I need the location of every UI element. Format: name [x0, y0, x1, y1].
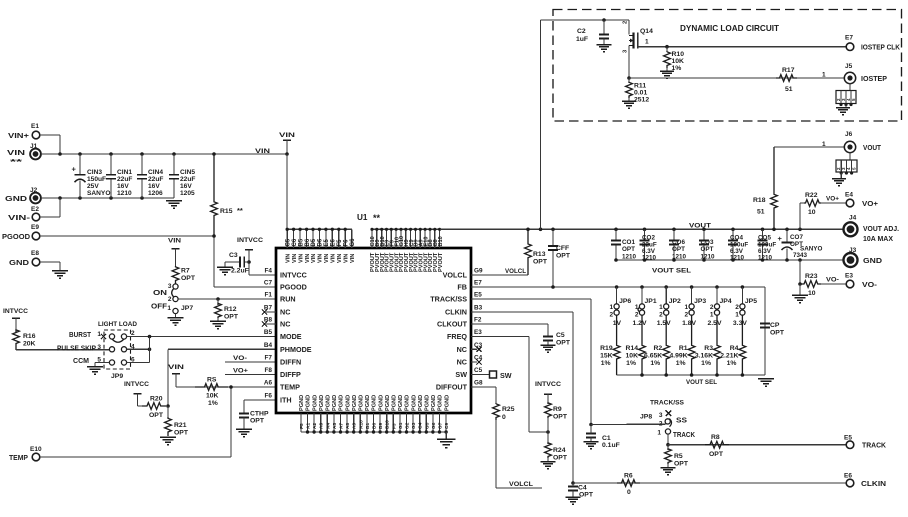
svg-text:JP9: JP9	[111, 373, 123, 380]
svg-text:PVOUT: PVOUT	[438, 252, 444, 272]
U1 right pin names	[430, 268, 483, 392]
jumper JP6	[609, 287, 631, 327]
svg-text:VOUT ADJ.: VOUT ADJ.	[863, 226, 899, 233]
wire to J6	[774, 141, 845, 148]
svg-text:VIN: VIN	[311, 254, 317, 263]
svg-text:A7: A7	[339, 423, 345, 429]
capacitor CO5	[757, 229, 776, 261]
svg-text:A2: A2	[312, 423, 318, 429]
svg-text:1: 1	[822, 141, 826, 148]
svg-text:TEMP: TEMP	[9, 455, 28, 462]
ground C5	[540, 341, 555, 353]
svg-text:R21: R21	[174, 422, 187, 429]
svg-text:E8: E8	[31, 250, 39, 257]
svg-text:B3: B3	[474, 305, 483, 312]
label VO- wire	[821, 277, 846, 285]
svg-text:VIN: VIN	[318, 254, 324, 263]
terminal E1 VIN+	[8, 123, 40, 140]
svg-text:NC: NC	[280, 308, 290, 317]
svg-text:MODE: MODE	[280, 332, 302, 341]
svg-text:R25: R25	[502, 406, 515, 413]
svg-text:B5: B5	[298, 238, 304, 246]
wire GND rail (output)	[614, 258, 844, 262]
svg-text:VIN: VIN	[298, 254, 304, 263]
svg-text:E9: E9	[31, 224, 39, 231]
resistor R9	[545, 403, 568, 421]
svg-text:4.99K: 4.99K	[669, 353, 687, 360]
svg-text:10K: 10K	[672, 58, 685, 65]
svg-text:LIGHT LOAD: LIGHT LOAD	[98, 321, 137, 328]
svg-text:E3: E3	[474, 329, 482, 336]
svg-text:INTVCC: INTVCC	[3, 308, 28, 315]
wire VOUT to dynamic load	[540, 20, 542, 229]
wire VOUT rail	[440, 228, 844, 232]
svg-text:TEMP: TEMP	[280, 383, 300, 392]
svg-text:2512: 2512	[634, 97, 649, 104]
svg-text:CIN3: CIN3	[87, 169, 102, 176]
ground R5	[660, 464, 675, 475]
svg-text:2: 2	[168, 296, 172, 303]
transistor Q14	[623, 20, 654, 78]
label VO+ DIFFP	[225, 368, 276, 375]
label VOUT net	[689, 223, 712, 230]
svg-text:CLKIN: CLKIN	[861, 481, 886, 488]
capacitor CFF	[548, 229, 571, 287]
svg-text:OPT: OPT	[553, 414, 568, 421]
svg-text:R6: R6	[624, 473, 633, 480]
resistor R17	[776, 67, 797, 93]
svg-text:10A MAX: 10A MAX	[863, 236, 893, 243]
wire TRACK net	[668, 444, 846, 446]
svg-text:R10: R10	[672, 51, 685, 58]
svg-text:C1: C1	[602, 435, 611, 442]
svg-text:0: 0	[502, 414, 506, 421]
svg-text:1%: 1%	[701, 360, 711, 367]
capacitor CO2	[639, 229, 657, 261]
connector shield J6	[836, 153, 857, 178]
svg-text:VOLCL: VOLCL	[509, 481, 533, 488]
ground R12	[210, 318, 226, 329]
svg-text:16V: 16V	[117, 183, 129, 190]
svg-text:VO+: VO+	[862, 201, 878, 208]
resistor R8	[705, 434, 729, 458]
net flag VIN RS	[168, 364, 184, 387]
svg-text:OPT: OPT	[622, 246, 635, 253]
capacitor CIN3	[72, 154, 111, 198]
svg-text:10: 10	[808, 209, 816, 216]
svg-text:VIN: VIN	[350, 254, 356, 263]
svg-text:PGND: PGND	[332, 395, 338, 411]
svg-text:16V: 16V	[148, 183, 160, 190]
svg-text:JP7: JP7	[181, 305, 193, 312]
svg-text:E5: E5	[324, 238, 330, 246]
svg-text:OPT: OPT	[224, 314, 239, 321]
svg-text:U1: U1	[357, 213, 368, 222]
svg-text:22uF: 22uF	[117, 176, 132, 183]
svg-text:VIN: VIN	[7, 150, 25, 157]
svg-text:B5: B5	[264, 329, 273, 336]
svg-text:OPT: OPT	[674, 461, 689, 468]
jumper JP3	[682, 287, 706, 327]
svg-text:R14: R14	[626, 345, 639, 352]
svg-text:CIN1: CIN1	[117, 169, 132, 176]
resistor R18	[753, 147, 777, 229]
svg-text:JP6: JP6	[619, 298, 631, 305]
capacitor CIN5	[169, 154, 196, 198]
svg-text:2: 2	[623, 21, 629, 24]
label VOLCL bottom	[509, 481, 533, 488]
svg-text:CP: CP	[770, 322, 780, 329]
jumper JP2	[657, 287, 681, 327]
resistor R19	[600, 315, 620, 375]
svg-text:G2: G2	[405, 422, 411, 429]
svg-text:G7: G7	[438, 422, 444, 429]
svg-text:C3: C3	[229, 252, 238, 259]
terminal E10 TEMP	[9, 446, 42, 462]
U1 PVOUT pin labels	[370, 236, 444, 272]
svg-text:R24: R24	[553, 447, 566, 454]
svg-text:VOLCL: VOLCL	[443, 271, 468, 280]
svg-text:G1: G1	[398, 422, 404, 429]
svg-text:R19: R19	[600, 345, 613, 352]
svg-text:1: 1	[167, 305, 171, 312]
ground J6	[832, 179, 846, 186]
svg-text:PGND: PGND	[378, 395, 384, 411]
svg-text:1210: 1210	[117, 190, 132, 197]
jack J2 GND	[5, 187, 41, 203]
svg-text:E2: E2	[31, 206, 39, 213]
ground C3	[217, 262, 233, 275]
svg-text:PGND: PGND	[438, 395, 444, 411]
svg-text:E6: E6	[331, 238, 337, 246]
svg-text:1: 1	[645, 39, 649, 46]
wire TEMP pin	[176, 385, 276, 389]
resistor R3	[695, 315, 721, 375]
svg-text:NC: NC	[457, 345, 467, 354]
svg-text:2: 2	[710, 304, 714, 311]
svg-text:R13: R13	[533, 251, 546, 258]
svg-text:A5: A5	[332, 423, 338, 429]
svg-text:E3: E3	[845, 273, 853, 280]
svg-text:1%: 1%	[601, 360, 611, 367]
svg-text:VO-: VO-	[862, 282, 878, 289]
wire DIFFOUT	[471, 387, 496, 404]
capacitor C5	[543, 332, 571, 347]
svg-text:R5: R5	[674, 453, 683, 460]
svg-text:3: 3	[97, 344, 101, 351]
U1 NC stub B7	[262, 309, 276, 314]
U1 SW testpoint	[471, 371, 512, 380]
net flag INTVCC R9	[535, 381, 561, 404]
svg-text:PGND: PGND	[339, 395, 345, 411]
svg-text:VIN: VIN	[331, 254, 337, 263]
svg-text:1206: 1206	[148, 190, 163, 197]
svg-text:VOUT: VOUT	[863, 145, 882, 152]
svg-text:E7: E7	[474, 280, 482, 287]
svg-text:R11: R11	[634, 83, 646, 90]
svg-text:ITH: ITH	[280, 396, 292, 405]
svg-text:PGND: PGND	[411, 395, 417, 411]
wire FB right branch	[764, 287, 766, 375]
U1 PVOUT pin bus (right top group)	[370, 228, 441, 248]
svg-text:VO+: VO+	[826, 196, 839, 203]
wire IOSTEP	[629, 72, 845, 79]
svg-text:G6: G6	[350, 238, 356, 247]
svg-text:VIN: VIN	[337, 254, 343, 263]
jack J6 VOUT	[844, 131, 881, 153]
U1 PGND pin bus (bottom group)	[299, 395, 450, 434]
net flag VIN top	[279, 132, 295, 156]
svg-text:VO-: VO-	[826, 277, 839, 284]
svg-text:OFF: OFF	[151, 304, 168, 311]
ground VOUT SEL	[758, 379, 774, 387]
dashed box DYNAMIC LOAD CIRCUIT	[553, 10, 902, 122]
svg-text:2: 2	[659, 421, 663, 428]
ground R10	[660, 68, 674, 78]
svg-text:2: 2	[659, 312, 663, 319]
svg-text:**: **	[373, 213, 381, 223]
svg-text:E7: E7	[845, 35, 853, 42]
svg-text:TRACK/SS: TRACK/SS	[650, 400, 684, 407]
svg-text:R8: R8	[711, 434, 720, 441]
wire ITH pin	[244, 399, 276, 401]
svg-text:CLKIN: CLKIN	[445, 308, 467, 317]
svg-text:F4: F4	[265, 268, 273, 275]
svg-text:VOUT: VOUT	[689, 223, 712, 230]
svg-text:G5: G5	[424, 422, 430, 429]
ground E8	[52, 271, 68, 279]
svg-text:+: +	[778, 234, 783, 243]
svg-text:OPT: OPT	[709, 451, 724, 458]
svg-text:SW: SW	[455, 370, 467, 379]
resistor R5	[665, 445, 689, 468]
svg-text:3: 3	[168, 283, 172, 290]
wire TRACK/SS net	[471, 299, 665, 426]
capacitor CO4	[728, 229, 749, 261]
svg-text:R23: R23	[805, 273, 818, 280]
svg-text:OPT: OPT	[701, 246, 714, 253]
U1 VIN pin bus (left top group)	[286, 228, 353, 248]
svg-text:R4: R4	[730, 345, 739, 352]
wire R9/R24 node	[547, 418, 549, 444]
resistor R6	[617, 473, 640, 497]
svg-text:C6: C6	[292, 238, 298, 246]
resistor R10	[664, 47, 685, 72]
resistor R16	[13, 330, 36, 350]
wire E8 to ground	[40, 262, 60, 270]
ground R24	[540, 458, 555, 469]
svg-text:B4: B4	[264, 342, 273, 349]
svg-text:1.8V: 1.8V	[682, 320, 696, 327]
wire R22 tap	[799, 203, 801, 229]
svg-text:R18: R18	[753, 197, 766, 204]
svg-text:OPT: OPT	[149, 412, 164, 419]
svg-text:VOUT SEL: VOUT SEL	[652, 268, 691, 275]
svg-text:E10: E10	[30, 446, 42, 453]
svg-text:2: 2	[635, 312, 639, 319]
svg-text:OPT: OPT	[533, 259, 548, 266]
label VOUT SEL jumpers	[686, 379, 717, 386]
jack J1 VIN	[7, 143, 41, 166]
svg-text:VOUT SEL: VOUT SEL	[686, 379, 717, 386]
svg-text:3: 3	[659, 412, 663, 419]
svg-text:F1: F1	[265, 292, 273, 299]
svg-text:R20: R20	[150, 396, 163, 403]
svg-text:GND: GND	[5, 196, 27, 203]
svg-text:A10: A10	[358, 420, 364, 429]
svg-text:OPT: OPT	[672, 246, 685, 253]
svg-text:R22: R22	[805, 192, 818, 199]
capacitor C3 2.2uF	[225, 252, 249, 275]
svg-text:JP1: JP1	[645, 298, 657, 305]
svg-text:NC: NC	[457, 358, 467, 367]
svg-text:15K: 15K	[600, 353, 613, 360]
wire RUN	[178, 297, 276, 301]
svg-text:DIFFN: DIFFN	[280, 358, 301, 367]
svg-text:VIN: VIN	[343, 254, 349, 263]
svg-text:0: 0	[627, 489, 631, 496]
svg-text:VIN: VIN	[168, 364, 184, 371]
svg-text:1: 1	[822, 72, 826, 79]
svg-text:2.21K: 2.21K	[720, 353, 738, 360]
svg-text:1210: 1210	[622, 253, 637, 260]
resistor R14	[626, 315, 646, 375]
svg-text:BURST: BURST	[69, 332, 92, 339]
U1 NC stub B8	[262, 321, 276, 326]
capacitor CO6	[669, 229, 687, 260]
svg-text:CFF: CFF	[556, 245, 569, 252]
svg-text:PGND: PGND	[312, 395, 318, 411]
label VIN net	[255, 148, 270, 155]
terminal E6 CLKIN	[844, 473, 886, 489]
svg-text:VO-: VO-	[233, 355, 247, 362]
svg-text:B10: B10	[385, 420, 391, 429]
svg-text:JP8: JP8	[640, 414, 652, 421]
label VOLCL	[505, 268, 526, 275]
label VOUT SEL caps	[652, 268, 691, 275]
svg-text:F6: F6	[343, 239, 349, 247]
svg-text:TRACK: TRACK	[673, 432, 695, 439]
svg-text:OPT: OPT	[174, 430, 189, 437]
terminal E7 IOSTEP CLK	[845, 35, 900, 52]
ground C2	[596, 45, 611, 52]
svg-text:VIN-: VIN-	[8, 215, 31, 222]
resistor R7	[172, 266, 196, 284]
svg-text:E4: E4	[845, 192, 853, 199]
svg-text:1: 1	[684, 304, 688, 311]
svg-text:A8: A8	[345, 423, 351, 429]
svg-text:7343: 7343	[793, 252, 808, 259]
capacitor C4	[568, 483, 594, 499]
svg-text:R1: R1	[679, 345, 688, 352]
svg-text:20K: 20K	[23, 341, 36, 348]
jumper JP5	[733, 287, 757, 327]
svg-text:PGND: PGND	[319, 395, 325, 411]
label VO+ wire	[821, 196, 846, 204]
svg-text:A3: A3	[319, 423, 325, 429]
svg-text:0.1uF: 0.1uF	[602, 442, 620, 449]
resistor R25	[493, 404, 515, 421]
svg-text:OPT: OPT	[770, 330, 785, 337]
svg-text:1%: 1%	[208, 400, 218, 407]
svg-text:1.5V: 1.5V	[657, 320, 671, 327]
svg-text:J2: J2	[30, 187, 38, 194]
resistor RS	[195, 377, 228, 408]
U1 NC stub C4	[471, 359, 482, 364]
svg-text:VIN: VIN	[292, 254, 298, 263]
svg-text:OPT: OPT	[556, 253, 571, 260]
svg-text:PGND: PGND	[326, 395, 332, 411]
svg-text:1205: 1205	[180, 190, 195, 197]
svg-text:1%: 1%	[626, 360, 636, 367]
svg-text:RUN: RUN	[280, 295, 296, 304]
connector shield J5	[836, 83, 856, 107]
svg-text:GND: GND	[863, 258, 882, 265]
svg-text:3.16K: 3.16K	[695, 353, 713, 360]
terminal E3 VO-	[845, 273, 878, 290]
svg-text:J4: J4	[849, 215, 857, 222]
svg-text:VIN: VIN	[305, 254, 311, 263]
svg-text:VIN: VIN	[168, 238, 181, 245]
svg-text:R7: R7	[181, 268, 190, 275]
ground CTHP	[236, 429, 252, 437]
ground JP9 CCM	[87, 367, 103, 375]
svg-text:F6: F6	[265, 393, 273, 400]
svg-text:R9: R9	[553, 406, 562, 413]
jumper JP8	[640, 410, 695, 439]
svg-text:6.65K: 6.65K	[644, 353, 662, 360]
svg-text:OPT: OPT	[181, 275, 196, 282]
svg-text:INTVCC: INTVCC	[124, 381, 149, 388]
svg-text:F7: F7	[265, 355, 273, 362]
svg-text:IOSTEP: IOSTEP	[861, 76, 887, 83]
svg-text:PGOOD: PGOOD	[2, 234, 30, 241]
svg-text:1: 1	[657, 430, 661, 437]
resistor R4	[720, 315, 746, 375]
svg-text:C9: C9	[444, 423, 450, 429]
U1 NC stub C3	[471, 347, 482, 352]
svg-text:0.01: 0.01	[634, 90, 647, 97]
svg-text:PGND: PGND	[299, 395, 305, 411]
svg-text:PGND: PGND	[398, 395, 404, 411]
svg-text:SS: SS	[676, 418, 687, 425]
svg-text:J1: J1	[30, 143, 38, 150]
svg-text:INTVCC: INTVCC	[280, 271, 307, 280]
svg-text:Q14: Q14	[640, 28, 653, 35]
svg-text:CIN4: CIN4	[148, 169, 163, 176]
svg-text:F3: F3	[391, 423, 397, 429]
svg-text:R3: R3	[704, 345, 713, 352]
net flag INTVCC R16	[3, 308, 28, 332]
net flag INTVCC R20	[124, 381, 149, 406]
jack J5 IOSTEP	[844, 63, 887, 84]
svg-text:J6: J6	[845, 131, 853, 138]
svg-text:25V: 25V	[87, 183, 99, 190]
svg-text:VIN+: VIN+	[8, 133, 29, 140]
svg-text:RS: RS	[207, 377, 217, 384]
jack J4 VOUT ADJ	[844, 215, 900, 244]
svg-text:NC: NC	[280, 320, 290, 329]
svg-text:E6: E6	[844, 473, 852, 480]
wire JP8 pin1 to TRACK	[666, 434, 670, 447]
resistor R12	[215, 299, 239, 321]
svg-text:PGND: PGND	[392, 395, 398, 411]
svg-text:FB: FB	[457, 283, 467, 292]
svg-text:C5: C5	[556, 332, 565, 339]
svg-text:CO1: CO1	[622, 239, 635, 246]
jumper JP4	[708, 287, 732, 327]
wire R16 to JP9 pin3	[16, 349, 110, 351]
